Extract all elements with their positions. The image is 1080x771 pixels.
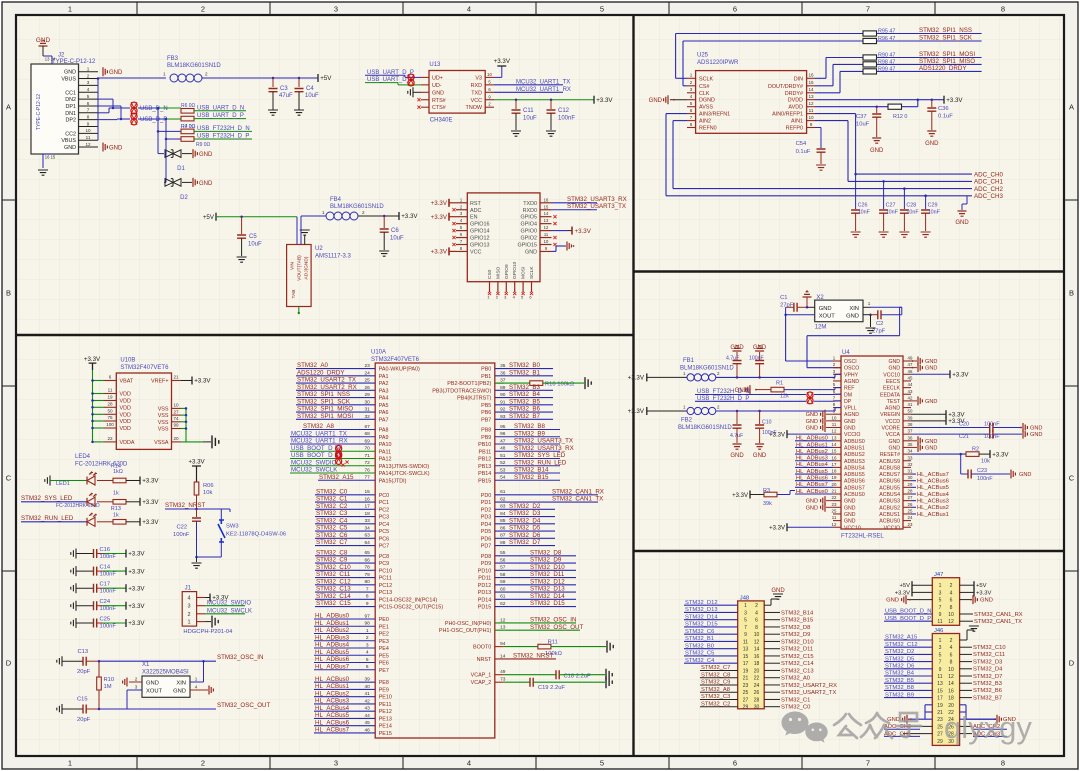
svg-text:VCCA: VCCA (886, 432, 901, 438)
svg-text:VBAT: VBAT (120, 379, 134, 385)
U13 pin TXD (485, 91, 494, 93)
svg-text:1: 1 (187, 620, 190, 626)
svg-text:PH0-OSC_IN(PH0): PH0-OSC_IN(PH0) (445, 621, 492, 627)
svg-text:AIN3/REFN1: AIN3/REFN1 (699, 112, 730, 118)
differential pair marker at U4 (807, 392, 813, 398)
Type-C pin 6 DP1 (79, 105, 99, 107)
svg-text:STM32_C2: STM32_C2 (701, 701, 730, 707)
U4 pin GND (903, 367, 911, 369)
module pin GPIO5 (540, 216, 552, 218)
svg-text:10: 10 (754, 632, 760, 638)
J47 pin 2 +5V (960, 584, 974, 586)
svg-text:STM32_C8: STM32_C8 (316, 549, 348, 556)
svg-text:PD15: PD15 (478, 605, 492, 611)
svg-text:58: 58 (500, 572, 506, 578)
svg-text:74: 74 (173, 416, 179, 421)
svg-text:GND: GND (199, 181, 213, 187)
net HL_ADBus0 (314, 618, 375, 620)
wire to TVS D1 (157, 131, 159, 153)
svg-text:13: 13 (832, 435, 837, 440)
svg-text:PC12: PC12 (379, 583, 393, 589)
svg-text:STM32_C1: STM32_C1 (781, 697, 810, 703)
svg-text:C20: C20 (959, 422, 969, 428)
svg-text:2: 2 (755, 603, 758, 609)
svg-text:STM32_D9: STM32_D9 (781, 632, 810, 638)
svg-text:U4: U4 (842, 350, 850, 356)
svg-text:+3.3V: +3.3V (732, 493, 748, 499)
svg-text:2: 2 (362, 210, 365, 215)
svg-text:44: 44 (908, 382, 913, 387)
svg-text:21: 21 (743, 676, 749, 682)
svg-text:PC13: PC13 (379, 590, 393, 596)
ferrite bead FB2 (646, 407, 648, 415)
svg-text:STM32_B9: STM32_B9 (885, 692, 914, 698)
svg-text:PE2: PE2 (379, 632, 389, 638)
svg-text:ADBUS2: ADBUS2 (844, 452, 865, 458)
svg-text:47: 47 (908, 362, 913, 367)
svg-text:26: 26 (365, 385, 371, 391)
svg-text:STM32_D15: STM32_D15 (530, 600, 565, 607)
svg-text:PA10: PA10 (379, 442, 392, 448)
svg-text:PA2: PA2 (379, 381, 389, 387)
U25 pin SCLK (687, 77, 696, 79)
capacitor C23 100nF (960, 454, 962, 474)
svg-text:C11: C11 (523, 108, 534, 114)
svg-text:100nF: 100nF (100, 554, 117, 560)
U10B pin VDD 50 (93, 413, 105, 415)
capacitor C29 10nF (924, 195, 927, 198)
svg-text:GND: GND (844, 512, 856, 518)
svg-text:CC1: CC1 (65, 90, 76, 96)
svg-text:100nF: 100nF (100, 589, 117, 595)
section border vertical divider (632, 15, 634, 756)
U4 pin GND (833, 513, 841, 515)
svg-text:LED4: LED4 (75, 454, 91, 460)
J46 net STM32_C12 (884, 646, 932, 648)
svg-text:STM32_D6: STM32_D6 (509, 532, 541, 539)
svg-text:10: 10 (173, 403, 179, 408)
svg-text:HL_ADBus5: HL_ADBus5 (315, 649, 350, 656)
U25 pin DGND (687, 99, 696, 101)
svg-text:1M: 1M (104, 684, 112, 690)
Type-C pin 12 GND (79, 146, 99, 148)
svg-text:5: 5 (600, 759, 604, 768)
svg-text:GND: GND (846, 313, 859, 319)
svg-text:39k: 39k (763, 501, 772, 507)
svg-text:C3: C3 (280, 86, 288, 92)
svg-text:AMS1117-3.3: AMS1117-3.3 (315, 254, 351, 260)
svg-text:4: 4 (467, 5, 471, 14)
svg-text:PD8: PD8 (481, 554, 492, 560)
net STM32_SPI1_MISO (296, 411, 375, 413)
svg-text:1: 1 (939, 638, 942, 644)
resistor R20 100k on BOOT1 (495, 382, 530, 384)
svg-text:19: 19 (743, 668, 749, 674)
module pin GPIO15 (540, 244, 552, 246)
svg-text:PA1: PA1 (379, 374, 389, 380)
svg-text:13 14: 13 14 (45, 57, 56, 62)
svg-text:GND: GND (146, 681, 159, 687)
U4 pin VPLL (833, 407, 841, 409)
U4 TEST GND flag (911, 400, 917, 402)
svg-text:GPIO4: GPIO4 (521, 222, 537, 228)
svg-text:18: 18 (948, 696, 954, 702)
svg-text:MCU32_SWCLK: MCU32_SWCLK (207, 608, 252, 614)
svg-text:4: 4 (467, 759, 471, 768)
svg-text:VCORE: VCORE (882, 426, 901, 432)
svg-text:3: 3 (744, 610, 747, 616)
svg-text:+3.3V: +3.3V (401, 213, 418, 220)
svg-text:70: 70 (365, 446, 371, 452)
svg-text:GND: GND (844, 519, 856, 525)
svg-text:33: 33 (908, 455, 913, 460)
svg-text:62: 62 (500, 496, 506, 502)
wire U25 CS# to SPI bus (683, 85, 687, 87)
svg-text:65: 65 (365, 550, 371, 556)
svg-text:59: 59 (500, 579, 506, 585)
svg-text:LED1: LED1 (56, 481, 70, 487)
svg-text:19: 19 (832, 475, 837, 480)
svg-text:STM32_B15: STM32_B15 (781, 618, 813, 624)
svg-text:CS0: CS0 (487, 269, 493, 279)
svg-text:7: 7 (939, 605, 942, 611)
net STM32_C6 (315, 537, 375, 539)
X1 GND pin2 ground flag (129, 681, 142, 683)
svg-text:9: 9 (87, 121, 90, 126)
svg-text:HL_ADBus6: HL_ADBus6 (796, 476, 828, 482)
svg-text:STM32_D5: STM32_D5 (509, 525, 541, 532)
svg-text:STM32_C13: STM32_C13 (316, 586, 351, 593)
net HL_ACBus3 (314, 703, 375, 705)
svg-text:HL_ADBus0: HL_ADBus0 (315, 613, 350, 620)
J47 pin 9 USB_BOOT_D_N (884, 613, 932, 615)
net STM32_D12 (495, 584, 576, 586)
svg-text:VPHY: VPHY (844, 372, 859, 378)
Type-C pin 1 GND (79, 71, 99, 73)
U25 pin AIN3/REFN1 (687, 113, 696, 115)
J48 pin 19 net STM32_C7 (700, 669, 738, 671)
LED row 1 (power) (45, 476, 50, 486)
svg-text:C5: C5 (249, 234, 257, 240)
svg-text:ACBUS3: ACBUS3 (879, 499, 900, 505)
net STM32_SPI1_NSS (296, 397, 375, 399)
capacitor C16 100nF (71, 549, 76, 559)
U4 pin GND (833, 506, 841, 508)
svg-text:53: 53 (500, 467, 506, 473)
net HL_ADBus5 (314, 654, 375, 656)
svg-text:STM32_B4: STM32_B4 (509, 391, 541, 398)
svg-text:5: 5 (366, 657, 369, 663)
svg-text:PB9: PB9 (481, 435, 491, 441)
svg-text:30: 30 (365, 399, 371, 405)
svg-text:10uF: 10uF (856, 122, 870, 128)
svg-text:MCU32_SWDIO: MCU32_SWDIO (207, 600, 251, 606)
net STM32_B9 (495, 436, 560, 438)
svg-text:STM32_USART3_RX: STM32_USART3_RX (514, 445, 574, 452)
svg-text:R4 0Ω: R4 0Ω (181, 124, 196, 130)
svg-text:C19 2.2uF: C19 2.2uF (538, 685, 566, 691)
svg-text:STM32_D4: STM32_D4 (973, 667, 1003, 673)
svg-text:STM32_D7: STM32_D7 (973, 674, 1002, 680)
svg-text:AGND: AGND (885, 406, 900, 412)
svg-text:STM32_D7: STM32_D7 (509, 539, 541, 546)
svg-text:STM32_C9: STM32_C9 (701, 680, 730, 686)
svg-text:STM32_C1: STM32_C1 (316, 496, 348, 503)
svg-text:C6: C6 (391, 228, 399, 234)
svg-text:PC2: PC2 (379, 507, 390, 513)
svg-text:STM32_D14: STM32_D14 (530, 593, 565, 600)
net STM32_USART3_TX (495, 443, 560, 445)
svg-text:C28: C28 (906, 203, 916, 209)
svg-text:10nF: 10nF (906, 210, 919, 216)
svg-text:97: 97 (365, 613, 371, 619)
svg-text:27: 27 (908, 495, 913, 500)
svg-text:D2: D2 (180, 195, 188, 201)
J48 pin 12 net STM32_D10 (764, 640, 780, 642)
svg-text:C27: C27 (886, 203, 896, 209)
svg-text:USB_UART_D_P: USB_UART_D_P (197, 113, 244, 119)
svg-text:HL_ACBus1: HL_ACBus1 (917, 512, 949, 518)
svg-text:AIN1: AIN1 (791, 119, 803, 125)
net HL_ADBus2 (314, 633, 375, 635)
svg-text:72: 72 (365, 460, 371, 466)
U4 pin ACBUS4 (903, 493, 911, 495)
wire U2 VOUT to FB4 (300, 216, 302, 245)
svg-text:PB1: PB1 (481, 374, 491, 380)
net STM32_C0 (315, 494, 375, 496)
svg-text:USB_FT232H_D_P: USB_FT232H_D_P (697, 396, 749, 402)
net STM32_D13 (495, 591, 576, 593)
net STM32_SPI1_MISO (877, 63, 982, 65)
svg-text:GPIO2: GPIO2 (521, 236, 537, 242)
net ADC_CH2 (673, 188, 972, 190)
svg-text:STM32_D9: STM32_D9 (530, 557, 562, 564)
svg-text:ADBUS5: ADBUS5 (844, 472, 865, 478)
power flag GND at D1 (193, 149, 197, 158)
svg-text:STM32_SYS_LED: STM32_SYS_LED (514, 452, 566, 459)
svg-text:HL_ADBus3: HL_ADBus3 (315, 634, 350, 641)
svg-text:16: 16 (832, 455, 837, 460)
svg-text:100nF: 100nF (173, 532, 190, 538)
svg-text:GND: GND (36, 37, 51, 44)
svg-text:61: 61 (500, 489, 506, 495)
svg-text:PB10: PB10 (478, 442, 491, 448)
wire DN2/DN1 join (98, 98, 113, 100)
resistor R99 47 (863, 69, 877, 74)
svg-text:4: 4 (950, 645, 953, 651)
svg-text:95: 95 (500, 424, 506, 430)
svg-text:GND: GND (886, 598, 899, 604)
svg-text:STM32_A8: STM32_A8 (303, 423, 335, 430)
J46 net STM32_C10 (960, 646, 972, 648)
net label USB_UART_D_P at U13 (365, 74, 405, 76)
svg-text:R11: R11 (548, 640, 558, 646)
net HL_ADBus1 (314, 625, 375, 627)
net HL_ACBus6 (314, 725, 375, 727)
svg-text:4: 4 (755, 610, 758, 616)
svg-text:8: 8 (950, 605, 953, 611)
svg-text:6: 6 (755, 618, 758, 624)
svg-text:GPIO9: GPIO9 (504, 264, 510, 279)
svg-text:+3.3V: +3.3V (142, 499, 159, 506)
svg-text:DM: DM (844, 392, 852, 398)
wire VBUS to FB3 (98, 77, 166, 79)
svg-text:EECLK: EECLK (883, 386, 901, 392)
svg-text:qlyxgy: qlyxgy (944, 710, 1032, 745)
wire U25 REFP0 down (815, 127, 821, 129)
ground at ADC_CH3 end (966, 196, 968, 204)
svg-text:DP2: DP2 (66, 118, 77, 124)
module pin GPIO16 (456, 223, 467, 225)
svg-text:AVSS: AVSS (699, 105, 713, 111)
svg-text:3: 3 (334, 5, 338, 14)
svg-text:15: 15 (937, 688, 943, 694)
svg-text:C15: C15 (77, 697, 88, 703)
svg-text:OSCO: OSCO (844, 366, 859, 372)
module pin TXD0 (540, 202, 552, 204)
svg-text:ADC: ADC (470, 208, 481, 214)
J48 pin 15 net STM32_C5 (684, 655, 738, 657)
net HL_ADBus3 (314, 640, 375, 642)
U25 pin DRDY# (807, 92, 815, 94)
svg-text:GND: GND (1030, 432, 1042, 438)
GND flags at U4 right GND pins (911, 440, 917, 442)
svg-text:24: 24 (365, 370, 371, 376)
resistor R6 0ohm (181, 109, 194, 114)
U4 pin GND (903, 446, 911, 448)
U4 pin ACBUS1 (903, 513, 911, 515)
U4 pin DP (833, 400, 841, 402)
svg-text:1kΩ: 1kΩ (113, 469, 123, 475)
svg-text:USB_BOOT_D_P: USB_BOOT_D_P (291, 452, 340, 459)
J48 pin 14 net STM32_D11 (764, 648, 780, 650)
Type-C pin 5 DN2 (79, 98, 99, 100)
svg-text:STM32_B4: STM32_B4 (885, 671, 915, 677)
Type-C pin 11 VBUS (79, 139, 99, 141)
svg-text:32: 32 (908, 462, 913, 467)
svg-text:100nF: 100nF (558, 116, 575, 122)
net STM32_SPI1_MOSI (296, 418, 375, 420)
power flag GND (top of Type-C) (39, 41, 48, 46)
svg-text:11: 11 (832, 515, 837, 520)
U4 pin ACBUS3 (903, 500, 911, 502)
net STM32_D9 (495, 562, 576, 564)
svg-text:83: 83 (500, 504, 506, 510)
svg-text:PB6: PB6 (481, 410, 491, 416)
net STM32_C15 (315, 606, 375, 608)
J48 pin 1 net STM32_D12 (684, 604, 738, 606)
svg-text:STM32_C3: STM32_C3 (701, 694, 730, 700)
svg-text:7: 7 (87, 108, 90, 113)
svg-text:PB0: PB0 (481, 367, 491, 373)
svg-text:EEDATA: EEDATA (880, 392, 901, 398)
svg-text:8: 8 (755, 625, 758, 631)
svg-text:PE8: PE8 (379, 680, 389, 686)
svg-text:GND: GND (888, 359, 900, 365)
svg-text:20: 20 (754, 668, 760, 674)
svg-text:91: 91 (500, 399, 506, 405)
svg-text:HL_ACBus6: HL_ACBus6 (917, 479, 949, 485)
resistor R2 10k at RESET# (911, 453, 966, 455)
svg-text:VCAP_1: VCAP_1 (471, 673, 492, 679)
svg-text:PD12: PD12 (478, 583, 492, 589)
svg-text:4: 4 (690, 94, 693, 99)
U10A BOOT0 pull-down (495, 646, 504, 648)
U4 pin VCCA (903, 433, 911, 435)
svg-text:10k: 10k (981, 459, 990, 465)
svg-text:C24: C24 (100, 599, 111, 605)
svg-text:77: 77 (365, 475, 371, 481)
wire VBUS pins junction (97, 79, 99, 141)
svg-text:PA9: PA9 (379, 435, 389, 441)
svg-text:XIN: XIN (176, 681, 186, 687)
svg-text:+3.3V: +3.3V (769, 526, 785, 532)
U25 pin AIN0/REFP1 (807, 113, 815, 115)
svg-text:89: 89 (500, 385, 506, 391)
svg-text:STM32_D10: STM32_D10 (781, 639, 814, 645)
svg-text:2: 2 (690, 80, 693, 85)
svg-text:6: 6 (950, 652, 953, 658)
U4 pin VCCIO (833, 433, 841, 435)
U13 pin UD- (421, 84, 429, 86)
svg-text:UD-: UD- (432, 83, 442, 89)
module pin GPIO12 (456, 237, 467, 239)
svg-text:ADBUS0: ADBUS0 (844, 439, 865, 445)
svg-text:KE2-11878Q-D4SW-06: KE2-11878Q-D4SW-06 (226, 532, 286, 538)
svg-text:USB_BOOT_D_P: USB_BOOT_D_P (885, 616, 931, 622)
svg-text:10uF: 10uF (390, 236, 404, 242)
U4 pin VCCIO (903, 526, 911, 528)
net HL_ACBus0 (314, 681, 375, 683)
U4 pin ACBUS0 (833, 493, 841, 495)
svg-text:STM32_C4: STM32_C4 (685, 658, 715, 664)
svg-text:BOOT0: BOOT0 (473, 645, 491, 651)
svg-text:100nF: 100nF (984, 434, 1000, 440)
svg-text:80: 80 (365, 579, 371, 585)
svg-text:U10A: U10A (371, 350, 386, 356)
wire to R6/R7 (138, 107, 158, 109)
U4 VCC10 bottom +3.3V (787, 526, 833, 528)
svg-text:MCU32_UART1_TX: MCU32_UART1_TX (516, 79, 570, 85)
svg-text:STM32_OSC_IN: STM32_OSC_IN (217, 654, 263, 661)
svg-text:C23: C23 (977, 468, 987, 474)
net MCU32_UART1_TX (494, 84, 563, 86)
svg-text:STM32_D13: STM32_D13 (685, 607, 718, 613)
svg-text:STM32_A15: STM32_A15 (319, 474, 354, 481)
svg-text:USB_UART_D_P: USB_UART_D_P (367, 70, 414, 76)
net USB_BOOT_D_N (290, 450, 375, 452)
ground above crystal (up) (806, 298, 808, 308)
svg-text:RTS#: RTS# (432, 98, 446, 104)
svg-text:PC11: PC11 (379, 576, 392, 582)
svg-text:STM32_B9: STM32_B9 (514, 430, 546, 437)
GND flags at U4 left AGND/GND (826, 413, 833, 415)
U4 pin VREGIN (903, 413, 911, 415)
Type-C pin 2 VBUS (79, 78, 99, 80)
net STM32_D4 (495, 523, 555, 525)
svg-text:2: 2 (87, 73, 90, 78)
svg-text:+3.3V: +3.3V (596, 97, 613, 104)
svg-text:R3: R3 (763, 488, 770, 494)
svg-text:90: 90 (500, 392, 506, 398)
svg-text:PA8: PA8 (379, 428, 389, 434)
svg-text:PD1: PD1 (481, 500, 492, 506)
J48 pin 24 net STM32_USART2_RX (764, 684, 780, 686)
U13 pin TNOW (485, 106, 494, 108)
svg-text:93: 93 (500, 414, 506, 420)
U4 pin AGND (833, 380, 841, 382)
svg-text:VREF+: VREF+ (151, 379, 169, 385)
